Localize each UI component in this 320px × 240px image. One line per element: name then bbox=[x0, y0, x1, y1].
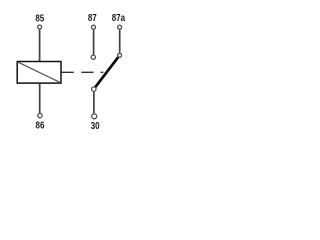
terminal 86 bbox=[38, 113, 42, 117]
svg-text:86: 86 bbox=[36, 120, 45, 131]
terminal 30 bbox=[92, 114, 97, 119]
wire 87a to contact bbox=[119, 30, 121, 53]
contact 87a bbox=[118, 53, 122, 57]
terminal 87 bbox=[92, 25, 96, 29]
wire 87 to contact bbox=[93, 30, 95, 55]
relay coil K1 (box) bbox=[17, 62, 61, 84]
svg-text:30: 30 bbox=[91, 120, 100, 131]
contact 87 bbox=[91, 55, 95, 59]
wire coil to 86 bbox=[39, 84, 41, 113]
svg-text:85: 85 bbox=[35, 12, 44, 23]
pivot contact 30 bbox=[92, 87, 97, 92]
switch arm 30-87a bbox=[94, 55, 120, 89]
terminal 87a bbox=[118, 25, 122, 29]
svg-text:87: 87 bbox=[88, 12, 97, 23]
wire pivot to 30 bbox=[93, 92, 95, 113]
actuator link (dashed) bbox=[60, 71, 103, 73]
coil diagonal bbox=[18, 62, 61, 83]
wire 85 to coil bbox=[39, 30, 41, 61]
terminal 85 bbox=[38, 25, 42, 29]
svg-text:87a: 87a bbox=[112, 12, 126, 23]
